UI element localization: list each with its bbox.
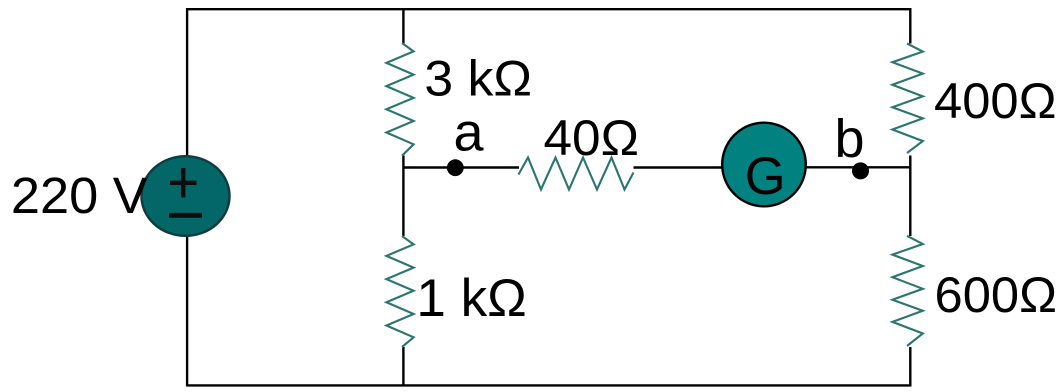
galvanometer U1 circle: [722, 123, 806, 207]
resistor R4 600Ω zigzag: [892, 236, 922, 346]
svg-text:G: G: [745, 147, 786, 206]
voltage source minus sign: [169, 213, 202, 218]
wire middle branch lower: [402, 347, 404, 387]
node b dot: [852, 162, 869, 179]
wire right middle: [909, 156, 911, 237]
wire right lower: [909, 347, 911, 387]
wire middle branch upper: [402, 8, 404, 44]
svg-text:40Ω: 40Ω: [544, 110, 640, 166]
wire right upper: [909, 8, 911, 44]
svg-text:400Ω: 400Ω: [934, 72, 1057, 129]
svg-text:a: a: [454, 103, 485, 163]
resistor R1 3 kΩ zigzag: [386, 43, 413, 156]
svg-text:3 kΩ: 3 kΩ: [424, 50, 532, 107]
wire bridge a segment: [403, 166, 519, 168]
svg-text:220 V: 220 V: [11, 167, 148, 224]
wire bridge mid segment: [634, 166, 725, 168]
svg-text:b: b: [835, 109, 865, 169]
resistor R5 40Ω zigzag: [519, 158, 634, 190]
wire left upper: [186, 8, 188, 156]
wire bridge b segment: [803, 166, 910, 168]
wire middle branch between: [402, 156, 404, 237]
wire left lower: [186, 237, 188, 387]
resistor R2 1 kΩ zigzag: [386, 236, 413, 347]
voltage source plus sign: [170, 168, 197, 198]
node a dot: [447, 159, 464, 176]
wire top: [187, 8, 911, 10]
svg-text:1 kΩ: 1 kΩ: [416, 269, 526, 328]
svg-text:600Ω: 600Ω: [935, 266, 1058, 323]
voltage source V1 circle: [142, 156, 230, 236]
wire bottom: [187, 384, 911, 386]
resistor R3 400Ω zigzag: [892, 44, 922, 154]
